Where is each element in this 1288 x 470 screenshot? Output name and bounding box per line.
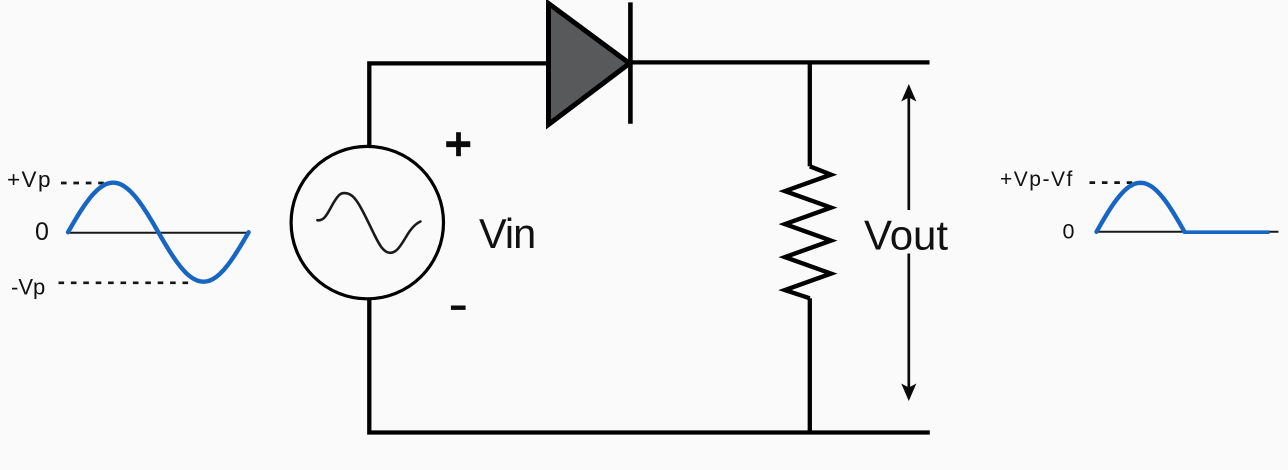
svg-text:Vin: Vin: [479, 210, 535, 257]
svg-text:+Vp: +Vp: [7, 167, 52, 192]
svg-text:-Vp: -Vp: [11, 274, 45, 299]
svg-text:0: 0: [35, 218, 49, 246]
svg-text:0: 0: [1063, 220, 1075, 244]
svg-text:+Vp-Vf: +Vp-Vf: [1000, 168, 1074, 191]
svg-text:Vout: Vout: [864, 211, 948, 258]
